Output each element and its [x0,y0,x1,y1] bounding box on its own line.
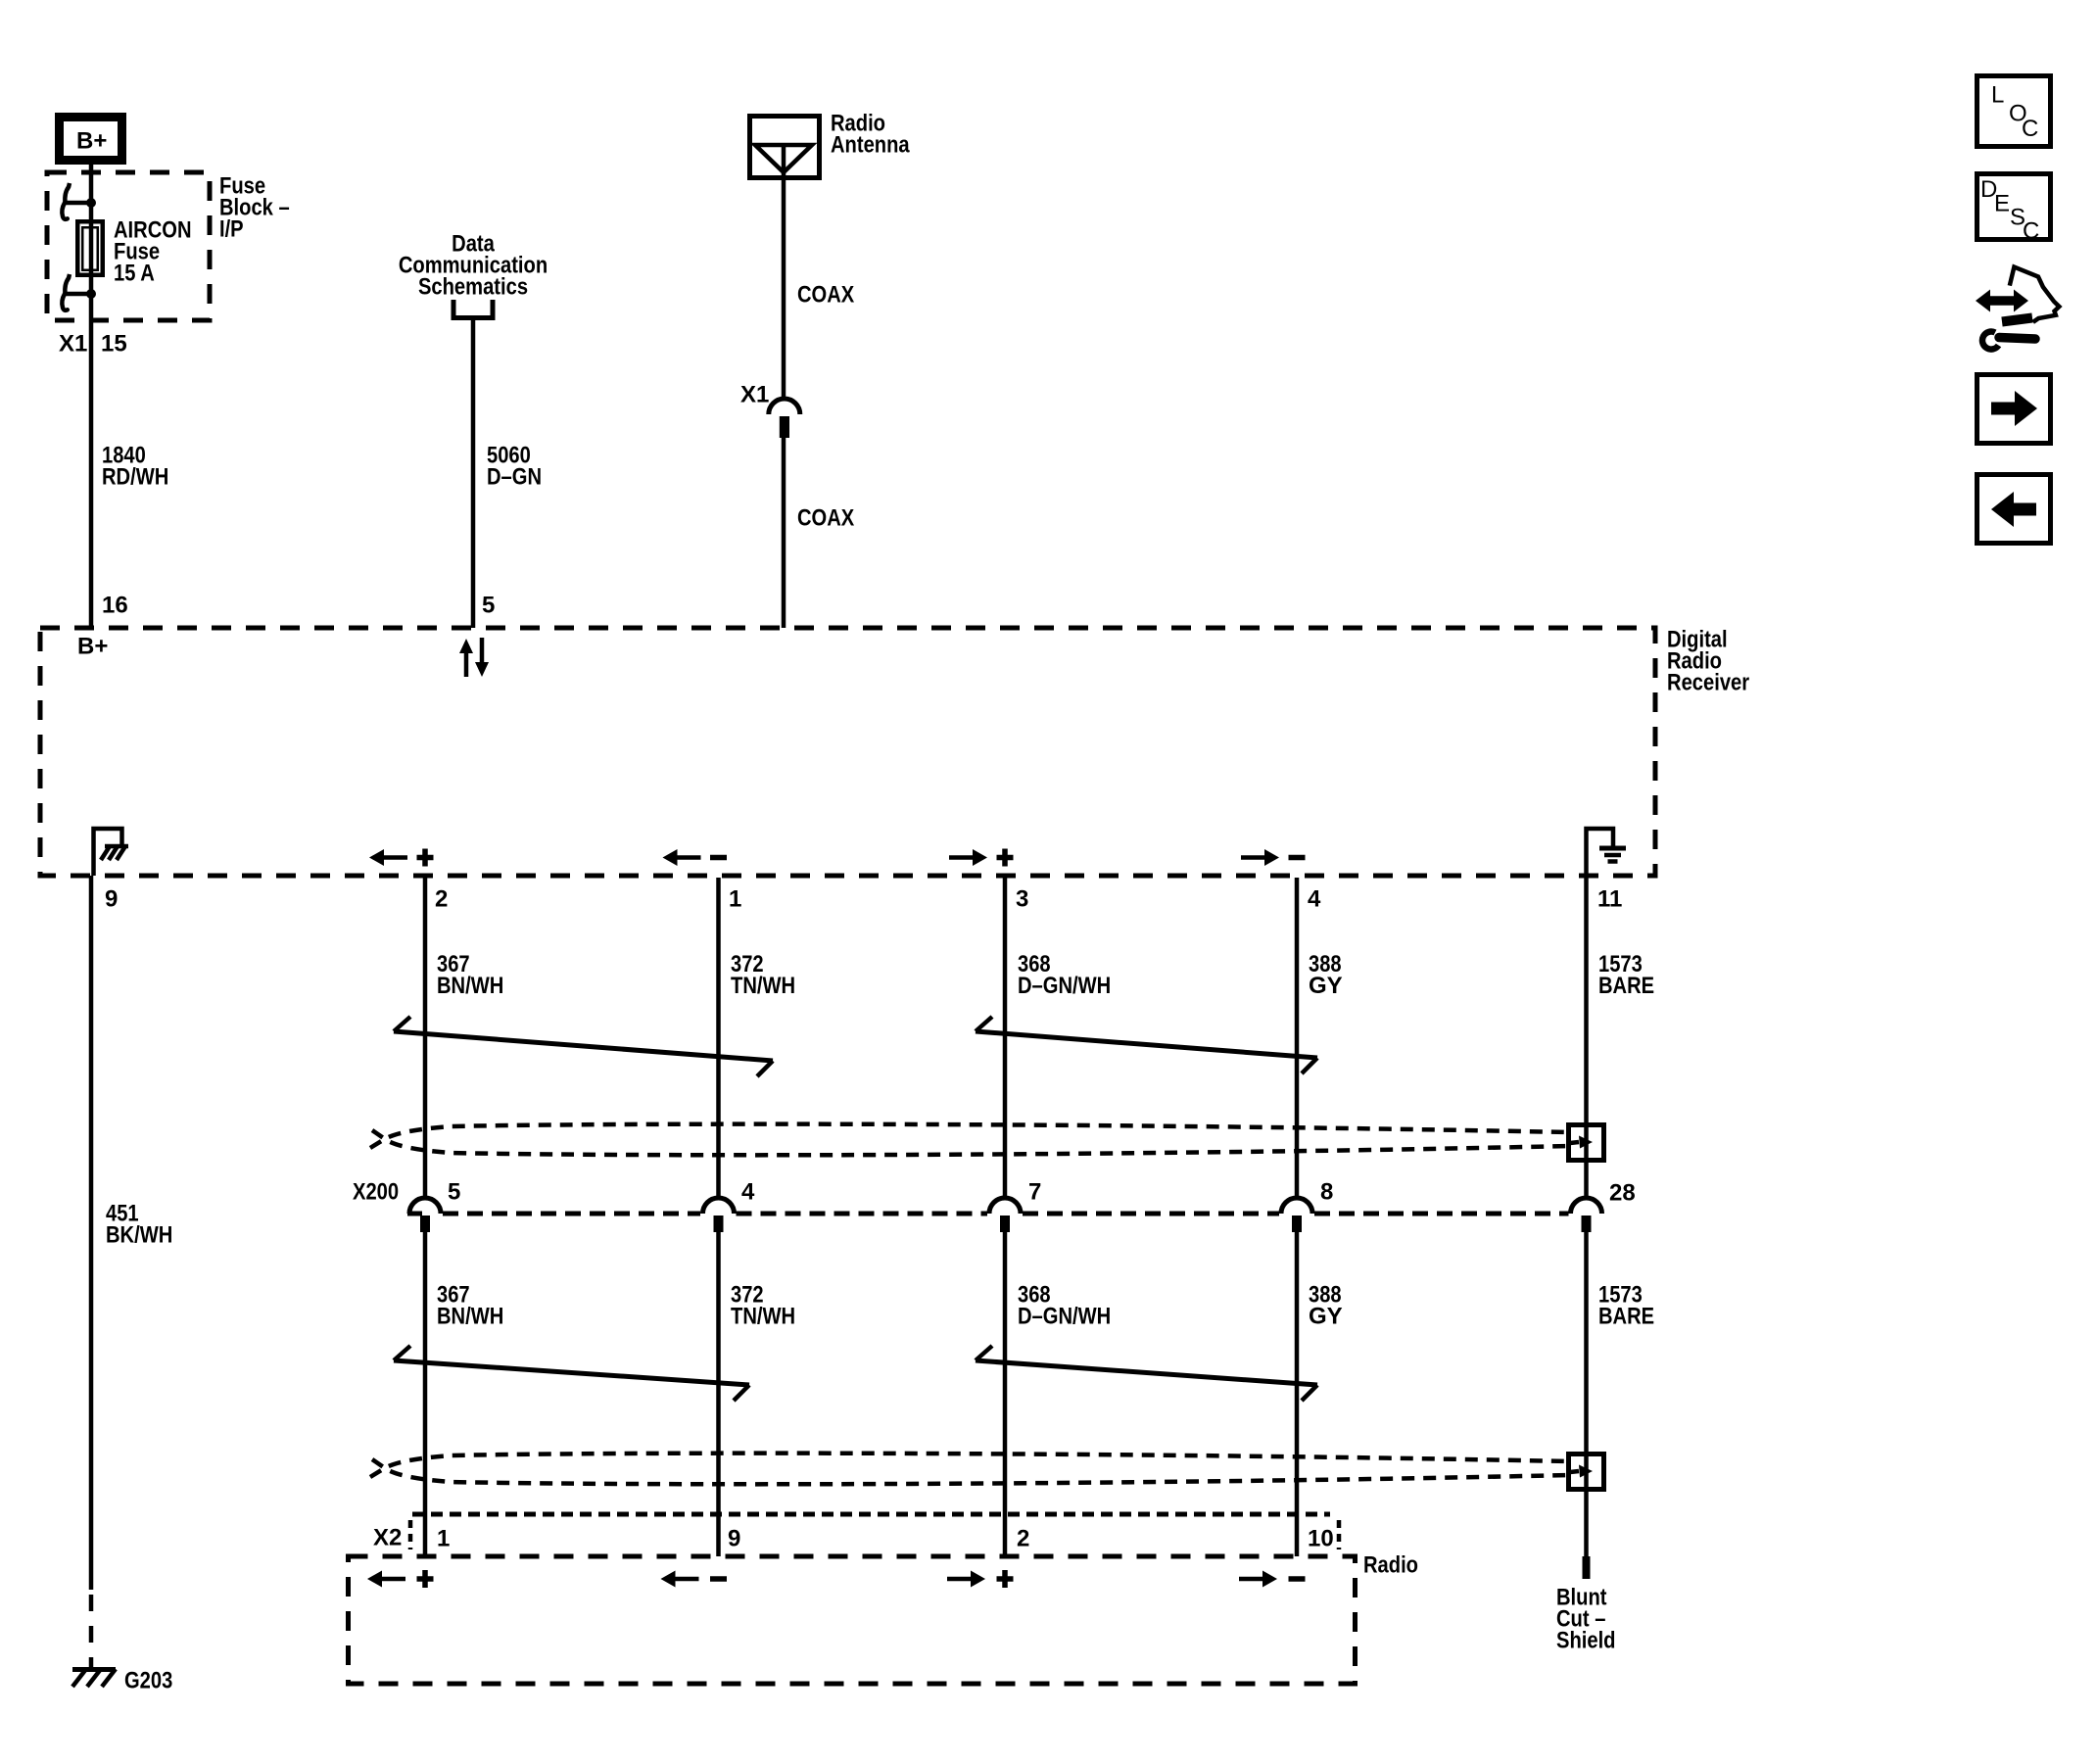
fuse block I/P dashed box [47,172,210,320]
blunt cut shield end [1583,1556,1591,1579]
label 372 TN/WH upper [731,951,795,999]
svg-text:GY: GY [1309,973,1343,999]
digital radio receiver dashed box [40,628,1655,876]
svg-text:L: L [1991,82,2004,109]
label 1573 BARE upper [1598,951,1654,999]
radio + arrow at pin 1 [367,1570,434,1588]
wire 368 D-GN/WH lower [1003,1232,1008,1556]
label Digital Radio Receiver [1667,627,1749,696]
connector X200 pin 28 [1571,1198,1602,1232]
svg-text:D–GN/WH: D–GN/WH [1018,973,1111,999]
svg-text:9: 9 [105,886,118,913]
svg-text:28: 28 [1609,1180,1636,1207]
svg-text:B+: B+ [76,128,107,155]
svg-text:BN/WH: BN/WH [437,1304,503,1330]
radio dashed box [349,1556,1356,1684]
icon hand with double arrow and wrench [1976,267,2059,350]
svg-text:4: 4 [1308,886,1321,913]
svg-text:X200: X200 [353,1179,399,1206]
icon previous arrow button [1977,475,2051,544]
svg-text:I/P: I/P [219,216,244,243]
svg-text:BARE: BARE [1598,1304,1654,1330]
twisted pair symbol 368/388 lower [976,1346,1317,1401]
shield connection box upper [1569,1125,1604,1161]
svg-text:2: 2 [1017,1526,1029,1552]
wire 388 GY upper [1295,878,1300,1198]
svg-text:X1: X1 [59,331,87,358]
svg-text:5: 5 [482,593,495,619]
wire 372 TN/WH upper [716,878,721,1198]
label 372 TN/WH lower [731,1282,795,1330]
wire 368 D-GN/WH upper [1003,878,1008,1198]
svg-text:B+: B+ [77,634,108,660]
antenna symbol [755,145,812,180]
shield loop lower [370,1454,1568,1485]
ground symbol at pin 9 inside receiver [94,829,129,876]
radio - arrow at pin 10 [1239,1571,1306,1588]
label 5060 D-GN [487,443,542,491]
svg-text:Shield: Shield [1556,1628,1616,1654]
svg-text:RD/WH: RD/WH [102,464,168,491]
speaker + arrow at pin 2 [369,849,434,867]
radio antenna box [750,117,820,178]
icon LOC button [1977,76,2051,147]
svg-text:COAX: COAX [797,282,854,309]
icon DESC button [1977,174,2051,245]
svg-text:15: 15 [101,331,127,358]
shield loop upper [370,1124,1568,1156]
svg-text:BN/WH: BN/WH [437,973,503,999]
svg-text:8: 8 [1320,1179,1333,1206]
connector X200 dashed line [407,1212,1569,1216]
speaker - arrow at pin 1 [663,849,728,866]
label Radio Antenna [831,111,910,159]
wire 367 BN/WH lower [423,1232,428,1556]
svg-text:TN/WH: TN/WH [731,1304,795,1330]
connector X200 pin 7 [989,1198,1021,1232]
data schematics bracket [453,300,493,318]
label 388 GY upper [1309,951,1343,999]
connector X200 pin 4 [703,1198,735,1232]
wire 388 GY lower [1295,1232,1300,1556]
svg-text:7: 7 [1028,1179,1041,1206]
label AIRCON Fuse 15 A [114,217,192,287]
svg-text:Schematics: Schematics [418,274,528,301]
X2 pin numbers [437,1526,1334,1552]
wire 372 TN/WH lower [716,1232,721,1556]
svg-text:4: 4 [741,1179,755,1206]
speaker - arrow at pin 4 [1241,849,1306,866]
ground G203 [72,1669,116,1687]
svg-text:BARE: BARE [1598,973,1654,999]
svg-text:C: C [2023,218,2039,245]
connector X2 right end mark [1337,1520,1342,1549]
coax wire lower [782,438,786,628]
wire 451 BK/WH pin 9 [89,876,94,1590]
label Blunt Cut - Shield [1556,1585,1616,1654]
svg-text:X1: X1 [740,382,769,408]
speaker + arrow at pin 3 [949,849,1014,867]
fuse clip lower [62,274,91,310]
svg-text:5: 5 [448,1179,460,1206]
svg-text:C: C [2022,116,2038,142]
wire 1573 BARE upper [1584,878,1589,1198]
radio - arrow at pin 9 [661,1571,728,1588]
connector X200 pin 5 [409,1198,441,1232]
svg-text:BK/WH: BK/WH [106,1222,172,1249]
label 367 BN/WH lower [437,1282,503,1330]
twisted pair symbol 367/372 lower [394,1346,749,1401]
label 451 BK/WH [106,1201,172,1249]
wire B+ into fuse block [89,165,94,203]
shield connection box lower [1569,1454,1604,1490]
junction node upper [86,198,96,208]
icon next arrow button [1977,375,2051,444]
coax wire upper [782,180,786,400]
svg-text:Radio: Radio [1363,1552,1418,1579]
label 1840 RD/WH [102,443,168,491]
wire 1840 RD/WH [89,294,94,628]
ground symbol at pin 11 inside receiver [1587,829,1627,876]
pin label X1 15 [59,331,127,358]
svg-text:3: 3 [1016,886,1028,913]
pin labels under receiver [105,886,1622,913]
twisted pair symbol 368/388 upper [976,1017,1317,1073]
label 367 BN/WH upper [437,951,503,999]
connector X2 dotted line [412,1512,1330,1517]
X200 pin numbers [448,1179,1636,1207]
svg-text:9: 9 [728,1526,740,1552]
svg-text:Receiver: Receiver [1667,670,1749,696]
wire 367 BN/WH upper [423,878,428,1198]
radio + arrow at pin 2 [947,1570,1014,1588]
svg-text:15 A: 15 A [114,261,155,287]
wire 1573 BARE lower [1584,1232,1589,1556]
svg-text:G203: G203 [124,1668,172,1694]
fuse clip upper [62,183,91,219]
data in/out arrows [459,638,489,677]
svg-text:E: E [1994,191,2010,217]
svg-text:GY: GY [1309,1304,1343,1330]
label 368 D-GN/WH upper [1018,951,1111,999]
label Data Communication Schematics [399,231,548,301]
svg-text:D–GN: D–GN [487,464,542,491]
svg-text:COAX: COAX [797,505,854,532]
label 388 GY lower [1309,1282,1343,1330]
connector X200 pin 8 [1281,1198,1312,1232]
svg-text:TN/WH: TN/WH [731,973,795,999]
svg-text:16: 16 [102,593,128,619]
junction node lower [86,289,96,299]
svg-text:Antenna: Antenna [831,132,910,159]
svg-text:10: 10 [1308,1526,1334,1552]
connector X1 terminal [780,416,789,438]
twisted pair symbol 367/372 upper [394,1017,773,1076]
label 1573 BARE lower [1598,1282,1654,1330]
connector X1 arc [769,399,800,414]
power feed B+ terminal box [60,118,122,161]
svg-text:1: 1 [437,1526,450,1552]
wire 451 dashed tail [89,1595,94,1670]
svg-text:1: 1 [729,886,741,913]
svg-text:2: 2 [435,886,448,913]
fuse AIRCON 15 A [77,203,103,294]
wire 5060 D-GN [471,320,476,628]
svg-text:X2: X2 [373,1525,402,1551]
connector X2 left end mark [408,1520,413,1549]
label 368 D-GN/WH lower [1018,1282,1111,1330]
label Fuse Block - I/P [219,173,290,243]
svg-text:11: 11 [1597,886,1622,913]
svg-text:D–GN/WH: D–GN/WH [1018,1304,1111,1330]
